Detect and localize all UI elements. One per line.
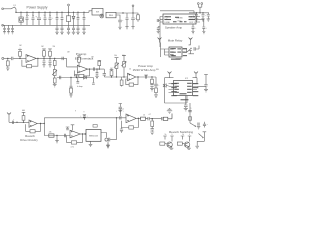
rail V+ top (16, 11, 89, 13)
capacitor C13 (201, 13, 206, 21)
wire from tank up (116, 125, 118, 140)
input cap left (157, 19, 160, 22)
label Mute Relay (168, 39, 183, 43)
ground bus (3, 24, 91, 26)
node dot (7, 58, 21, 59)
ground (154, 95, 158, 98)
transformer T1 (19, 12, 23, 25)
svg-text:10: 10 (129, 68, 131, 70)
feedback loop R23 (122, 118, 139, 129)
capacitor C22 (60, 76, 61, 79)
ground (76, 25, 79, 34)
label Power Amp (133, 64, 156, 72)
pot VR1 (114, 58, 119, 77)
node dots (116, 76, 125, 77)
IC U6 box (174, 81, 193, 96)
ground (69, 95, 72, 97)
ground (118, 27, 121, 29)
ground (150, 88, 154, 91)
output wire (136, 76, 156, 78)
antenna input (7, 113, 11, 123)
resistor R29 on line (49, 132, 54, 138)
svg-text:Drive Circuitry: Drive Circuitry (20, 138, 38, 142)
svg-text:REG: REG (109, 15, 114, 17)
op-amp U1A (26, 55, 36, 63)
svg-text:9: 9 (123, 109, 124, 111)
label box above tank (93, 125, 97, 128)
label Speaker Amp (165, 25, 183, 29)
ground row2 (55, 25, 58, 34)
node dot (152, 118, 153, 119)
resistor R18 (155, 88, 158, 95)
capacitor C28 (12, 119, 15, 124)
label Power Supply (27, 6, 48, 10)
V+ tap (116, 110, 124, 116)
ground (82, 25, 85, 34)
resistor R27 pullup (98, 60, 102, 69)
capacitor C26 out (154, 77, 160, 88)
ground (187, 148, 191, 149)
svg-text:+: + (87, 116, 88, 118)
transistor Q1 (160, 136, 174, 148)
bus terminal (2, 24, 4, 26)
svg-text:+ +: + + (19, 48, 22, 50)
pins right (193, 84, 198, 90)
capacitor C12 (193, 13, 199, 21)
antenna (168, 72, 172, 78)
capacitor C4 (44, 12, 47, 25)
transistor Q2 (177, 136, 191, 148)
tiny corner text (156, 69, 159, 71)
regulator U3 (106, 12, 116, 17)
node dot (16, 122, 24, 123)
capacitor C20 (93, 67, 94, 70)
wire (116, 118, 118, 125)
capacitor C30 (64, 134, 65, 137)
capacitor C37 floating (119, 104, 124, 111)
svg-text:9: 9 (84, 112, 85, 114)
wire down (43, 118, 45, 136)
wire corner to stage2 (67, 58, 78, 67)
output wire (80, 133, 86, 135)
svg-text:3 GND: 3 GND (164, 22, 170, 24)
label (20, 134, 38, 142)
svg-text:SW: SW (96, 12, 99, 14)
output wire (36, 57, 66, 59)
resistor R11 (70, 78, 73, 95)
svg-text:9: 9 (75, 111, 76, 113)
capacitor C8 (83, 12, 86, 25)
svg-text:Speaker Amp: Speaker Amp (165, 25, 183, 29)
output wire (136, 117, 141, 119)
wires left of relay (161, 43, 165, 58)
capacitor C31 below loop (120, 128, 123, 133)
svg-text:47u: 47u (26, 15, 29, 17)
node dot (82, 133, 86, 134)
capacitor C34 (162, 117, 163, 120)
node dot (70, 77, 77, 78)
ground (72, 25, 75, 34)
feedback loop R3 (22, 58, 38, 67)
speaker jack J2 (188, 45, 199, 51)
svg-text:BYP 1: BYP 1 (189, 22, 194, 24)
svg-text:9: 9 (172, 134, 173, 136)
resistor R1 (6, 58, 9, 67)
input jack crossed (163, 84, 169, 88)
ground (150, 132, 154, 135)
bottom-left cluster (167, 108, 172, 114)
ground (195, 146, 199, 149)
capacitor C16 (12, 57, 26, 60)
IC U4 box (163, 14, 196, 24)
node dots (122, 12, 133, 13)
pin label dash rows (165, 16, 199, 100)
node dot (56, 135, 57, 136)
svg-text:1k: 1k (182, 134, 184, 136)
wire below jack (189, 43, 195, 54)
input line (44, 135, 70, 137)
capacitor C7 (77, 12, 80, 25)
svg-text:15/20 W Min Amp: 15/20 W Min Amp (133, 68, 156, 72)
svg-text:+: + (205, 15, 206, 17)
tank box (86, 130, 101, 142)
svg-text:9: 9 (189, 134, 190, 136)
resistor R4 pullup (42, 49, 46, 59)
capacitor C19 (62, 57, 63, 60)
node dots (40, 123, 45, 124)
node dots (196, 12, 204, 13)
node dot (84, 117, 85, 118)
long rail (44, 117, 126, 119)
feedback loop R15 (126, 77, 138, 86)
bypass cap on left wire (157, 27, 160, 34)
wire down from stage (54, 58, 56, 60)
wire (116, 15, 120, 18)
svg-text:1: 1 (191, 108, 192, 110)
zobel R17 (150, 77, 153, 88)
mute line chain (188, 103, 196, 127)
capacitor C5 (49, 12, 55, 25)
svg-text:1u: 1u (32, 15, 34, 17)
ground (11, 25, 14, 34)
ground below tank (89, 141, 93, 146)
node dots (89, 68, 100, 69)
switch box S1 (92, 8, 103, 15)
node dots rail1 (15, 12, 84, 13)
svg-text:LM380: LM380 (176, 18, 183, 20)
jack box J4 (101, 133, 117, 142)
op-amp U7 (29, 120, 37, 127)
resistor R25 down (151, 119, 154, 132)
svg-text:8EB2C1B: 8EB2C1B (89, 135, 98, 137)
pot VR3 volume (52, 70, 57, 79)
capacitor C3 electrolytic (35, 12, 41, 25)
ground (7, 25, 10, 34)
relay K1 box (169, 47, 182, 57)
pins right (196, 17, 200, 23)
resistor R5 (48, 49, 52, 59)
terminals top (197, 3, 202, 13)
capacitor C1 (26, 12, 29, 25)
node dot (137, 76, 152, 77)
op-amp U8 (70, 130, 80, 138)
capacitor C41 below box (191, 24, 196, 34)
capacitor C39 (203, 122, 209, 128)
resistor R30 below line (120, 77, 123, 87)
ground (42, 65, 45, 67)
svg-text:Power Supply: Power Supply (27, 6, 48, 10)
svg-text:Preamp: Preamp (76, 52, 87, 56)
label Preamp (75, 52, 94, 61)
ground (131, 27, 134, 29)
wire (197, 86, 206, 88)
IC pin dash rows (174, 83, 191, 95)
svg-text:.1: .1 (83, 14, 84, 16)
ground (119, 110, 123, 113)
svg-text:+: + (116, 110, 117, 112)
resistor R31 (53, 61, 56, 70)
resistor R26 (163, 114, 172, 121)
rail (116, 12, 136, 14)
pins left (169, 84, 174, 93)
regulator U2 box (66, 4, 70, 25)
antenna jack right (189, 38, 193, 43)
V+ tap R6 (77, 56, 81, 65)
V+ taps above (66, 125, 75, 130)
relay pin rows (170, 48, 181, 59)
V+ bus top right (189, 12, 209, 14)
op-amp U9 (126, 114, 136, 123)
svg-text:4R: 4R (188, 45, 191, 47)
node dot (111, 76, 112, 77)
svg-text:.1: .1 (56, 14, 57, 16)
value specks (19, 14, 192, 136)
pot VR2 (121, 55, 126, 77)
ground below tank2 (106, 144, 110, 149)
ground (170, 148, 174, 149)
feedback loop R20 (26, 124, 41, 133)
ground (125, 27, 128, 29)
svg-text:10k: 10k (114, 55, 117, 57)
output wire (37, 123, 44, 125)
svg-text:22k: 22k (49, 132, 52, 134)
capacitor C21 down (96, 69, 99, 76)
pin labels (164, 16, 195, 24)
node dots (37, 58, 51, 59)
ground (53, 84, 57, 87)
diode D2 on line (84, 76, 87, 79)
output wire (88, 68, 105, 70)
ground under J4 (106, 142, 110, 148)
svg-text:10: 10 (143, 115, 145, 117)
svg-text:4.7: 4.7 (149, 114, 151, 116)
resistor R0 (136, 13, 139, 22)
corner cap C24 (103, 69, 106, 77)
V+ tap top wire (75, 75, 79, 78)
bottom stub C27 (184, 96, 188, 109)
capacitor C9 (118, 18, 124, 27)
svg-text:.1: .1 (76, 14, 77, 16)
capacitor C32 (120, 116, 121, 119)
svg-text:Mute Relay: Mute Relay (168, 39, 183, 43)
wire to lamp box (89, 11, 92, 13)
fuse F1 (11, 5, 17, 9)
resistor R10 (53, 78, 56, 84)
antenna jack left (158, 38, 162, 43)
node dot (138, 118, 153, 120)
capacitor C23 (76, 78, 79, 84)
V+ tap (80, 115, 87, 120)
ground (60, 25, 63, 34)
feedback loop R22 (67, 134, 83, 149)
ground symbols left (3, 25, 6, 34)
svg-text:4.7k: 4.7k (71, 147, 74, 149)
svg-text:+: + (195, 28, 196, 30)
ground (95, 76, 99, 78)
op-amp U5 (128, 73, 136, 81)
svg-text:1k: 1k (165, 134, 167, 136)
feedback loop R7 (74, 69, 89, 77)
enclosing wire loop (165, 78, 188, 103)
lamp L1 (100, 14, 104, 18)
AC plug P1 (2, 8, 11, 10)
relay pins (165, 49, 187, 55)
diode D1 (72, 12, 75, 25)
ground (6, 68, 9, 70)
wire top right (193, 78, 198, 84)
svg-text:+: + (206, 28, 207, 30)
input wire (9, 121, 29, 123)
terminal (132, 5, 134, 13)
capacitor C42 right (200, 19, 207, 34)
label IC2 (185, 78, 189, 80)
wiper wire (57, 77, 94, 79)
op-amp U1B (77, 65, 87, 73)
svg-text:10k: 10k (122, 55, 125, 57)
V+ tap R19 (22, 110, 26, 122)
resistor R24 (141, 117, 148, 120)
antenna (194, 72, 198, 78)
resistor R14 tap (110, 70, 114, 77)
capacitor C38 (197, 123, 200, 129)
wire left down (159, 17, 161, 48)
diode D1 (61, 12, 64, 25)
ground at node (55, 136, 59, 143)
capacitor C25 (144, 75, 148, 79)
svg-text:+: + (80, 116, 81, 118)
ground (48, 65, 51, 67)
wire right / switch arm (187, 48, 192, 52)
right switch cluster (197, 132, 206, 146)
ground (204, 89, 208, 92)
pins left (160, 17, 163, 23)
ground (67, 25, 70, 34)
capacitor C10 (131, 13, 137, 26)
svg-text:10: 10 (44, 15, 46, 17)
label (169, 130, 193, 134)
capacitor C11 (126, 13, 129, 26)
node dot (54, 58, 55, 59)
capacitor C40 (207, 13, 210, 21)
V+ tap R2 (18, 48, 22, 59)
wire (15, 9, 17, 13)
svg-text:1u: 1u (49, 15, 51, 17)
capacitor C2 (32, 12, 35, 25)
end stub (92, 78, 95, 85)
right cap column (204, 75, 208, 89)
capacitor C6 (56, 12, 59, 25)
capacitor C17 (43, 58, 46, 64)
capacitor C33 (148, 117, 161, 120)
NFB wire over box (160, 11, 194, 13)
input wire (104, 76, 127, 78)
tiny label (77, 86, 83, 88)
capacitor C18 (49, 58, 52, 64)
ground (184, 108, 188, 111)
svg-text:fx loop: fx loop (77, 86, 83, 88)
input jack J1 (2, 57, 11, 59)
wire top left (165, 77, 174, 79)
node dot (116, 117, 117, 118)
